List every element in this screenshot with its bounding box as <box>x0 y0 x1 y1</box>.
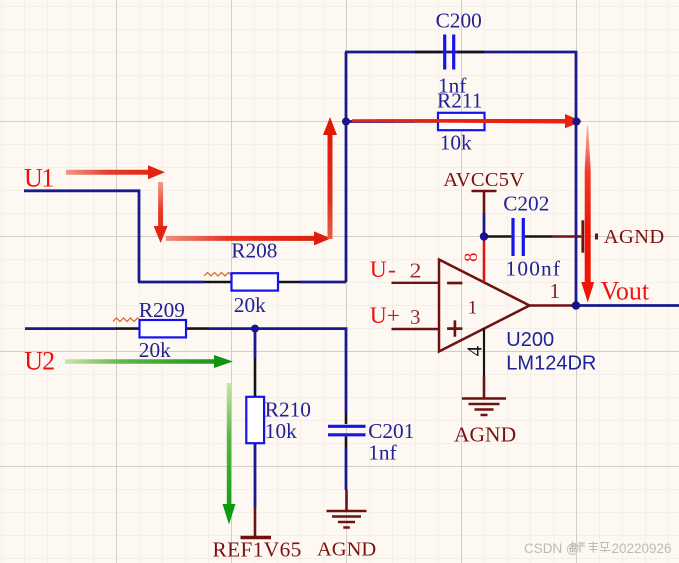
svg-text:AVCC5V: AVCC5V <box>443 169 524 191</box>
wire C201 to ground <box>345 447 348 490</box>
svg-text:U200: U200 <box>506 329 554 351</box>
wire C202 right black stub <box>525 235 552 238</box>
svg-text:U2: U2 <box>24 347 54 376</box>
wire to AGND bar (maroon) <box>552 235 581 238</box>
svg-text:2: 2 <box>410 259 422 283</box>
ground AGND right (bar style) <box>583 220 665 252</box>
svg-text:4: 4 <box>462 345 486 356</box>
resistor R208 20k <box>231 238 278 317</box>
capacitor C202 100nf <box>503 192 561 281</box>
svg-text:C200: C200 <box>436 9 482 33</box>
annotation red arrow 6 down to Vout <box>581 126 594 303</box>
wire U1 input run down to R208 row <box>24 189 204 282</box>
ground AGND under C201 <box>317 490 376 561</box>
svg-text:REF1V65: REF1V65 <box>213 538 302 562</box>
wire output to right <box>571 304 679 307</box>
ERC squiggle at R208 <box>204 273 232 277</box>
svg-text:U+: U+ <box>370 303 400 329</box>
annotation red arrow 5 through R211 <box>352 114 582 128</box>
wire AVCC to junction <box>483 213 486 233</box>
svg-text:U-: U- <box>370 257 397 283</box>
resistor R209 20k <box>139 298 186 362</box>
ERC squiggle at R209 <box>113 318 141 322</box>
pin 3 of U200 <box>392 305 440 329</box>
svg-text:10k: 10k <box>440 131 472 155</box>
annotation green arrow 7 U2 right <box>65 355 233 368</box>
node junction dot at feedback/R211 <box>342 118 350 126</box>
wire black stubs of R209 <box>116 327 210 330</box>
svg-text:100nf: 100nf <box>506 257 562 281</box>
wire C201 black stubs <box>345 413 348 447</box>
svg-text:C201: C201 <box>368 419 414 443</box>
svg-text:20220926: 20220926 <box>612 541 672 556</box>
svg-text:R208: R208 <box>231 238 277 262</box>
resistor R210 10k <box>246 397 311 443</box>
wire black stubs of C200 on top wire <box>415 51 484 54</box>
wire R210 bottom to REF1V65 <box>254 443 257 508</box>
svg-text:AGND: AGND <box>454 423 516 447</box>
svg-text:10k: 10k <box>265 419 297 443</box>
wire top feedback loop: left vertical, top horizontal, right vertical <box>345 51 577 306</box>
pin 1 output of U200 <box>530 279 572 306</box>
capacitor C201 1nf <box>328 419 414 465</box>
wire black stubs of R211 <box>415 120 513 123</box>
svg-text:AGND: AGND <box>604 226 665 248</box>
resistor R211 10k <box>437 89 485 155</box>
svg-text:U1: U1 <box>24 163 53 192</box>
svg-text:Vout: Vout <box>601 277 650 306</box>
node junction dot R211 right / feedback top <box>573 118 581 126</box>
wire R209 row from left <box>25 327 346 413</box>
node junction dot AVCC/C202 <box>480 232 488 240</box>
power port AVCC5V <box>443 169 524 213</box>
svg-text:1: 1 <box>468 298 478 319</box>
svg-text:LM124DR: LM124DR <box>506 353 596 375</box>
annotation red arrow 1 U1 right <box>66 165 165 179</box>
op-amp U200 LM124DR <box>439 260 596 375</box>
wire C202 left black stub <box>487 235 511 238</box>
svg-text:C202: C202 <box>503 192 549 216</box>
capacitor C200 <box>436 9 482 98</box>
annotation green arrow 8 down to REF1V65 <box>223 383 236 525</box>
watermark CSDN <box>524 541 672 556</box>
pin 4 ground pin of U200 <box>462 328 486 376</box>
svg-text:R209: R209 <box>139 298 185 322</box>
annotation red arrow 3 right to feedback <box>166 231 331 245</box>
svg-text:1nf: 1nf <box>368 441 397 465</box>
svg-text:20k: 20k <box>139 338 171 362</box>
wire R210 branch down <box>254 329 257 358</box>
pin 8 power pin of U200 <box>462 240 484 282</box>
svg-text:1: 1 <box>550 279 561 303</box>
ground AGND under op-amp <box>454 376 516 447</box>
svg-text:20k: 20k <box>234 293 266 317</box>
pin 2 of U200 <box>392 259 440 283</box>
node junction dot Vout <box>572 301 580 309</box>
svg-text:AGND: AGND <box>317 539 376 561</box>
svg-text:R211: R211 <box>437 89 482 113</box>
svg-text:8: 8 <box>462 253 482 262</box>
node junction dot R209/R210 <box>251 325 259 333</box>
svg-text:R210: R210 <box>265 398 311 422</box>
wire R211 row <box>347 120 575 123</box>
wire R208 to feedback vertical <box>300 281 346 284</box>
svg-text:3: 3 <box>410 305 421 329</box>
annotation red arrow 2 down <box>154 182 168 243</box>
wire black stub above R210 <box>254 358 257 397</box>
wire black stubs of R208 <box>204 281 300 284</box>
annotation red arrow 4 up along feedback <box>323 117 337 239</box>
power port REF1V65 <box>213 508 302 562</box>
